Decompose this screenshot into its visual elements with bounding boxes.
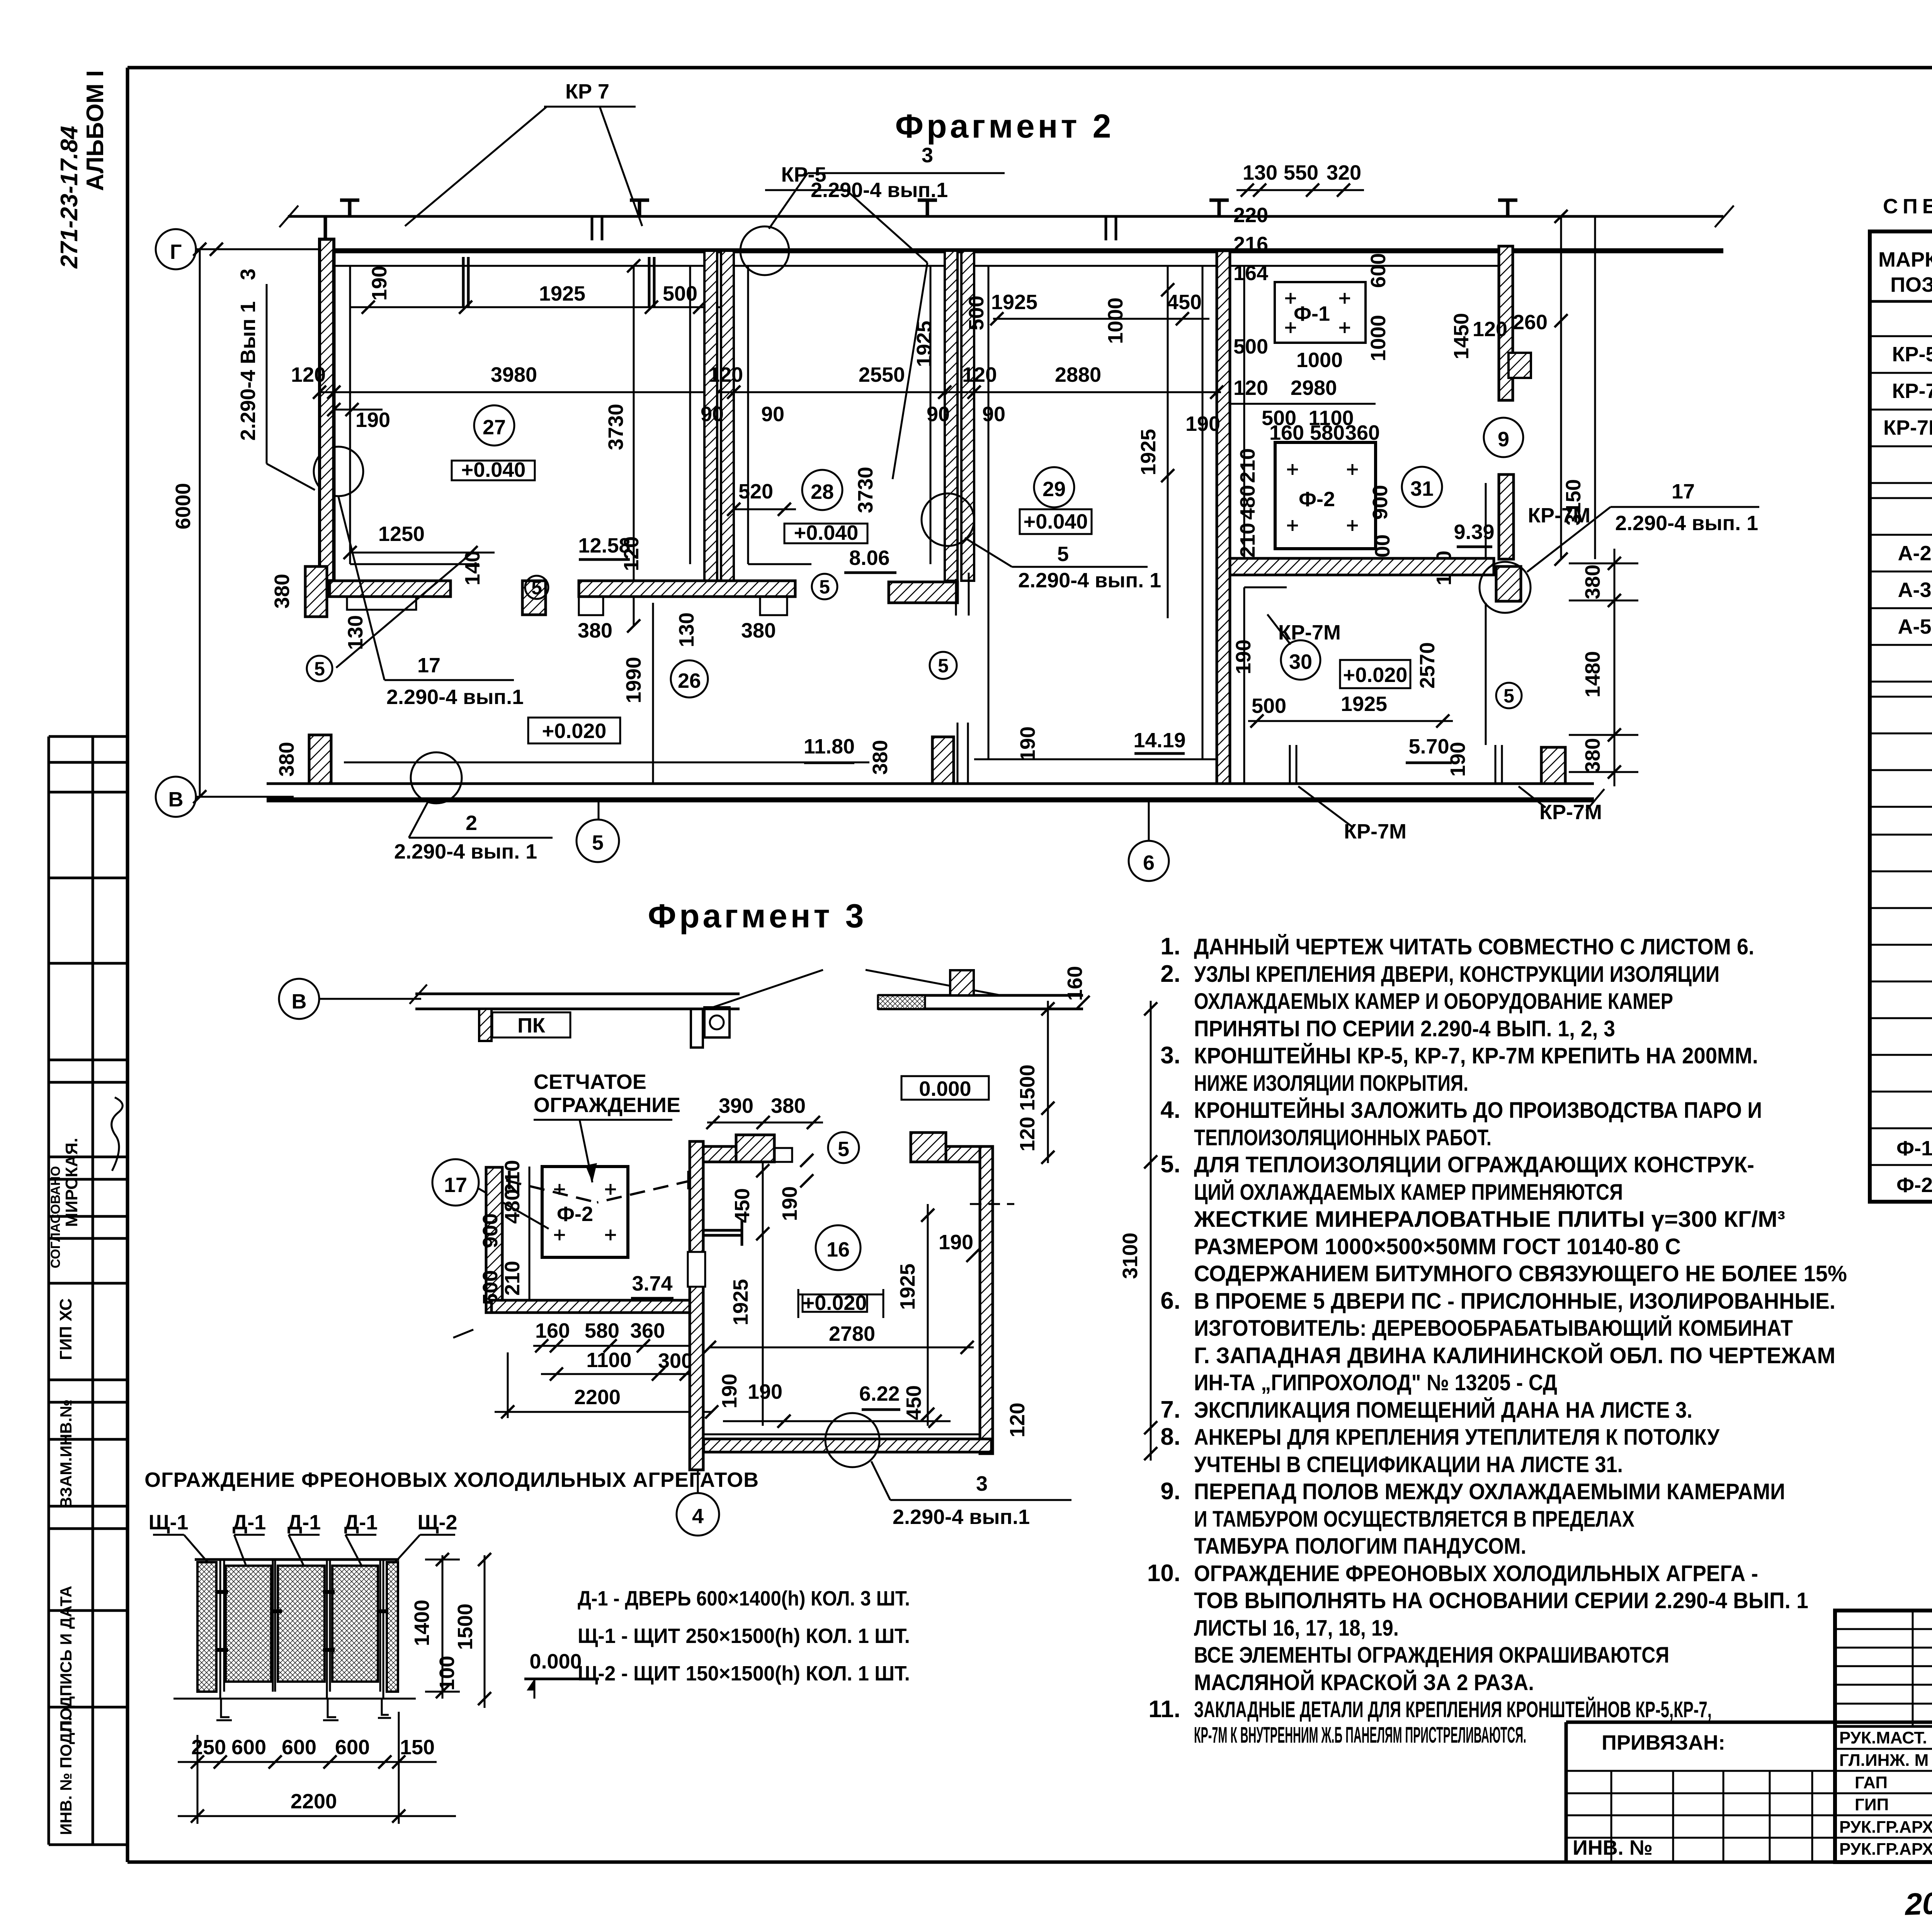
svg-text:390: 390	[719, 1094, 753, 1117]
svg-text:500: 500	[965, 296, 988, 330]
svg-text:120: 120	[962, 363, 997, 386]
svg-text:1925: 1925	[729, 1279, 752, 1325]
svg-text:2.: 2.	[1160, 961, 1180, 987]
svg-text:Ф-2: Ф-2	[1896, 1173, 1932, 1197]
svg-text:ВЗАМ.ИНВ.№: ВЗАМ.ИНВ.№	[57, 1400, 75, 1509]
top wall band	[415, 993, 740, 995]
fence elevation	[145, 1468, 910, 1824]
privyazan box	[1566, 1721, 1932, 1724]
svg-text:ИН-ТА „ГИПРОХОЛОД" № 13205 - С: ИН-ТА „ГИПРОХОЛОД" № 13205 - СД	[1194, 1370, 1557, 1395]
column joint at left wall top	[324, 216, 327, 239]
dim 3730 room 27	[633, 266, 635, 626]
top wall inner thick line	[320, 248, 1723, 253]
svg-text:ДАННЫЙ ЧЕРТЕЖ ЧИТАТЬ СОВМЕСТНО: ДАННЫЙ ЧЕРТЕЖ ЧИТАТЬ СОВМЕСТНО С ЛИСТОМ …	[1194, 934, 1754, 959]
wall 27|28	[704, 251, 717, 581]
svg-text:5: 5	[838, 1138, 849, 1161]
anchor symbol left	[703, 1229, 742, 1232]
top right wall column	[1499, 246, 1513, 400]
axis Г	[156, 229, 196, 269]
svg-text:В: В	[168, 788, 184, 811]
svg-text:11.: 11.	[1148, 1696, 1180, 1723]
svg-text:600: 600	[231, 1736, 266, 1759]
svg-text:250: 250	[191, 1736, 226, 1759]
svg-text:380: 380	[1581, 565, 1604, 599]
bottom wall band	[267, 782, 1594, 785]
svg-text:7.: 7.	[1160, 1396, 1180, 1423]
svg-text:И ТАМБУРОМ ОСУЩЕСТВЛЯЕТСЯ В ПР: И ТАМБУРОМ ОСУЩЕСТВЛЯЕТСЯ В ПРЕДЕЛАХ	[1194, 1507, 1634, 1532]
inner line room29 bottom	[974, 759, 1217, 760]
svg-text:9: 9	[1498, 428, 1509, 451]
top wall right break	[1715, 206, 1734, 227]
svg-text:2780: 2780	[829, 1322, 875, 1345]
upper small grid	[1835, 1611, 1932, 1726]
svg-text:5: 5	[314, 658, 325, 680]
svg-text:РАЗМЕРОМ 1000×500×50ММ ГОСТ 10: РАЗМЕРОМ 1000×500×50ММ ГОСТ 10140-80 С	[1194, 1234, 1681, 1259]
svg-text:А-2: А-2	[1898, 542, 1931, 565]
svg-text:РУК.ГР.АРХ.: РУК.ГР.АРХ.	[1839, 1840, 1932, 1859]
svg-text:1925: 1925	[896, 1264, 919, 1310]
svg-text:А-3: А-3	[1898, 578, 1931, 602]
svg-text:ЦИЙ ОХЛАЖДАЕМЫХ КАМЕР ПРИМЕНЯЮ: ЦИЙ ОХЛАЖДАЕМЫХ КАМЕР ПРИМЕНЯЮТСЯ	[1194, 1180, 1623, 1205]
svg-text:6.22: 6.22	[859, 1382, 900, 1405]
svg-text:216: 216	[1233, 233, 1268, 256]
svg-text:ВСЕ ЭЛЕМЕНТЫ ОГРАЖДЕНИЯ ОКРАШИ: ВСЕ ЭЛЕМЕНТЫ ОГРАЖДЕНИЯ ОКРАШИВАЮТСЯ	[1194, 1643, 1669, 1668]
svg-text:КР-7М: КР-7М	[1344, 820, 1406, 843]
svg-text:164: 164	[1233, 262, 1268, 285]
bottom blocks	[932, 737, 954, 784]
svg-text:СЕТЧАТОЕ: СЕТЧАТОЕ	[534, 1070, 646, 1094]
dim row 190 450 6.22	[723, 1420, 951, 1422]
right dim col 3100	[1150, 1001, 1152, 1461]
svg-text:СПЕЦИФИКАЦИЯ ЭЛЕМЕНТОВ ОХЛАЖДА: СПЕЦИФИКАЦИЯ ЭЛЕМЕНТОВ ОХЛАЖДАЕМЫХ КАМЕР	[1883, 195, 1932, 218]
svg-text:130: 130	[1243, 161, 1277, 184]
svg-text:МАРКА: МАРКА	[1878, 248, 1932, 271]
svg-text:1990: 1990	[622, 657, 645, 703]
svg-text:90: 90	[982, 403, 1005, 426]
svg-text:11.80: 11.80	[804, 735, 855, 758]
svg-text:ИЗГОТОВИТЕЛЬ: ДЕРЕВООБРАБАТЫВА: ИЗГОТОВИТЕЛЬ: ДЕРЕВООБРАБАТЫВАЮЩИЙ КОМБИ…	[1194, 1316, 1793, 1341]
svg-text:2570: 2570	[1416, 642, 1439, 689]
svg-text:600: 600	[1367, 253, 1390, 288]
svg-text:ЗАКЛАДНЫЕ ДЕТАЛИ ДЛЯ КРЕПЛЕНИЯ: ЗАКЛАДНЫЕ ДЕТАЛИ ДЛЯ КРЕПЛЕНИЯ КРОНШТЕЙН…	[1194, 1697, 1712, 1722]
title block	[1566, 1611, 1932, 1864]
room 28	[802, 470, 842, 510]
svg-text:160: 160	[1063, 966, 1087, 1001]
svg-text:27: 27	[483, 416, 506, 439]
svg-text:190: 190	[1016, 726, 1039, 761]
column joint marks on top wall	[340, 200, 1517, 216]
svg-text:160: 160	[535, 1319, 570, 1342]
svg-text:120: 120	[708, 363, 743, 386]
svg-text:КР 7: КР 7	[565, 80, 609, 103]
svg-text:130: 130	[675, 612, 698, 647]
label 3 / 2.290-4 вып.1	[871, 1461, 890, 1500]
svg-text:9.: 9.	[1160, 1478, 1180, 1505]
svg-text:1100: 1100	[586, 1349, 631, 1372]
svg-text:5.: 5.	[1160, 1151, 1180, 1178]
svg-text:29: 29	[1043, 478, 1066, 501]
svg-text:1250: 1250	[378, 522, 425, 546]
right porch	[911, 1133, 946, 1162]
svg-text:ГИП ХС: ГИП ХС	[56, 1298, 75, 1360]
svg-text:ОХЛАЖДАЕМЫХ КАМЕР И ОБОРУДОВАН: ОХЛАЖДАЕМЫХ КАМЕР И ОБОРУДОВАНИЕ КАМЕР	[1194, 989, 1673, 1014]
svg-text:3.: 3.	[1160, 1042, 1180, 1069]
svg-text:380: 380	[275, 742, 298, 777]
room 27 elevation +0.040	[452, 461, 535, 480]
svg-text:Щ-2: Щ-2	[417, 1511, 457, 1534]
svg-text:450: 450	[1167, 291, 1202, 314]
svg-text:3: 3	[976, 1472, 988, 1495]
svg-text:ГИП: ГИП	[1855, 1795, 1889, 1814]
leader to lower wall	[336, 553, 472, 668]
svg-text:380: 380	[741, 619, 776, 642]
svg-text:ПРИНЯТЫ ПО СЕРИИ 2.290-4 ВЫП.: ПРИНЯТЫ ПО СЕРИИ 2.290-4 ВЫП. 1, 2, 3	[1194, 1016, 1615, 1041]
svg-text:КР-7: КР-7	[1892, 379, 1932, 403]
svg-text:900: 900	[1369, 485, 1392, 520]
svg-text:380: 380	[771, 1094, 806, 1117]
svg-text:14.19: 14.19	[1133, 729, 1185, 752]
dim row 120 2550 over 28	[719, 391, 978, 393]
fence frame	[195, 1558, 399, 1561]
svg-text:600: 600	[282, 1736, 316, 1759]
svg-text:26: 26	[678, 669, 701, 692]
svg-text:ПОЗ.: ПОЗ.	[1890, 273, 1932, 296]
svg-text:3: 3	[922, 144, 933, 167]
dim row 190 1925 500	[350, 306, 732, 308]
top wall outer line	[288, 215, 1723, 218]
room 31 inner outline	[1230, 265, 1499, 267]
room16 bottom wall	[704, 1439, 992, 1452]
svg-text:Щ-1: Щ-1	[148, 1511, 188, 1534]
row lines	[1870, 336, 1932, 1165]
ПК box	[492, 1012, 570, 1037]
wall 29|30 central	[1217, 251, 1230, 784]
room 31	[1402, 467, 1442, 507]
svg-text:А-5: А-5	[1898, 615, 1931, 638]
svg-text:2550: 2550	[859, 363, 905, 386]
svg-text:17: 17	[1672, 480, 1695, 503]
svg-text:380: 380	[869, 740, 892, 775]
svg-text:Щ-2 - ЩИТ 150×1500(h) КОЛ.: Щ-2 - ЩИТ 150×1500(h) КОЛ. 1 ШТ.	[578, 1662, 910, 1685]
svg-text:120: 120	[1006, 1403, 1029, 1437]
svg-text:28: 28	[811, 480, 834, 503]
svg-text:2.290-4 вып.1: 2.290-4 вып.1	[893, 1505, 1030, 1529]
posts	[220, 1560, 383, 1699]
left protruding block	[309, 735, 331, 784]
mesh panels	[197, 1562, 216, 1692]
room 16 top wall	[703, 1146, 774, 1162]
svg-text:Ф-1: Ф-1	[1896, 1137, 1932, 1160]
feet	[216, 1699, 391, 1720]
svg-text:ЛИСТЫ 16, 17, 18, 19.: ЛИСТЫ 16, 17, 18, 19.	[1194, 1616, 1399, 1641]
svg-text:500: 500	[1233, 335, 1268, 358]
svg-text:120: 120	[1233, 376, 1268, 400]
svg-text:220: 220	[1233, 204, 1268, 227]
Ф-1 foundation box	[1275, 282, 1366, 343]
svg-text:2.290-4 Вып 1: 2.290-4 Вып 1	[236, 301, 260, 441]
top wall left break	[279, 206, 298, 227]
svg-text:190: 190	[1446, 742, 1469, 777]
dim 1450 3150	[1560, 216, 1562, 559]
right jamb of band	[691, 1009, 703, 1048]
svg-text:+0.020: +0.020	[1343, 663, 1408, 687]
svg-text:380: 380	[578, 619, 612, 642]
svg-text:В ПРОЕМЕ 5 ДВЕРИ ПС - ПРИСЛОНН: В ПРОЕМЕ 5 ДВЕРИ ПС - ПРИСЛОННЫЕ, ИЗОЛИР…	[1194, 1289, 1835, 1314]
svg-text:1925: 1925	[913, 321, 936, 367]
detail circle on top wall	[740, 226, 789, 275]
svg-text:190: 190	[748, 1380, 782, 1403]
svg-text:9.39: 9.39	[1454, 520, 1494, 544]
lower wall under rooms 28	[579, 581, 795, 597]
svg-text:1450: 1450	[1450, 313, 1473, 359]
svg-text:5: 5	[1057, 543, 1069, 566]
svg-text:480: 480	[501, 1189, 524, 1224]
svg-text:2880: 2880	[1055, 363, 1101, 386]
svg-text:МИРСКАЯ.: МИРСКАЯ.	[62, 1138, 81, 1227]
svg-text:260: 260	[1513, 311, 1548, 334]
dim 1250 / 140	[350, 552, 495, 554]
specification table	[1870, 195, 1932, 1202]
svg-text:Д-1 - ДВЕРЬ 600×1400(h) КОЛ.: Д-1 - ДВЕРЬ 600×1400(h) КОЛ. 3 ШТ.	[578, 1587, 910, 1610]
box with circle	[704, 1007, 730, 1037]
+0.020 box	[803, 1294, 867, 1312]
hatched column under band	[479, 1009, 492, 1041]
left wall	[320, 239, 334, 581]
svg-text:ПЕРЕПАД ПОЛОВ МЕЖДУ ОХЛАЖДАЕМЫ: ПЕРЕПАД ПОЛОВ МЕЖДУ ОХЛАЖДАЕМЫМИ КАМЕРАМ…	[1194, 1479, 1785, 1504]
svg-text:1400: 1400	[410, 1600, 434, 1646]
svg-text:КР-7М: КР-7М	[1883, 416, 1932, 439]
svg-text:3980: 3980	[491, 363, 537, 386]
bottom wall inner line	[344, 762, 869, 764]
svg-text:1925: 1925	[991, 291, 1037, 314]
svg-text:Ф-2: Ф-2	[557, 1202, 593, 1226]
svg-text:210: 210	[501, 1261, 524, 1296]
svg-text:190: 190	[355, 408, 390, 432]
svg-text:РУК.МАСТ.: РУК.МАСТ.	[1839, 1728, 1927, 1747]
ground line	[173, 1698, 416, 1700]
svg-text:+0.040: +0.040	[794, 521, 859, 544]
room 27 inner outline	[349, 266, 351, 564]
svg-text:КР-7М: КР-7М	[1528, 504, 1590, 527]
svg-text:20360-01: 20360-01	[1904, 1883, 1932, 1922]
detail circle bottom	[825, 1413, 879, 1467]
svg-text:550: 550	[1284, 161, 1318, 184]
svg-text:2980: 2980	[1291, 376, 1337, 400]
svg-text:500: 500	[663, 282, 697, 305]
svg-text:90: 90	[761, 403, 784, 426]
bottom wall room17	[492, 1300, 690, 1313]
room 29 inner outline	[974, 265, 1217, 267]
svg-text:3.74: 3.74	[632, 1272, 672, 1295]
axis 4	[697, 1470, 699, 1493]
fragment 2 plan	[156, 80, 1759, 881]
right dims 1400 1500 100	[442, 1555, 444, 1699]
svg-text:8.: 8.	[1160, 1423, 1180, 1450]
svg-text:МАСЛЯНОЙ КРАСКОЙ ЗА 2 РАЗА.: МАСЛЯНОЙ КРАСКОЙ ЗА 2 РАЗА.	[1194, 1670, 1534, 1695]
header bottom	[1870, 300, 1932, 303]
svg-text:КР-5: КР-5	[781, 163, 827, 186]
svg-text:360: 360	[630, 1319, 665, 1342]
svg-text:210: 210	[1236, 523, 1259, 558]
axis 6 bottom	[1148, 800, 1150, 841]
svg-text:380: 380	[1581, 738, 1604, 773]
svg-text:120: 120	[1016, 1117, 1039, 1151]
450 dim	[762, 1162, 764, 1426]
svg-text:СОДЕРЖАНИЕМ БИТУМНОГО СВЯЗУЮЩЕ: СОДЕРЖАНИЕМ БИТУМНОГО СВЯЗУЮЩЕГО НЕ БОЛЕ…	[1194, 1261, 1847, 1286]
label 5 / 2.290-4 вып.1	[922, 493, 974, 546]
svg-text:190: 190	[718, 1374, 741, 1408]
svg-text:1925: 1925	[1137, 429, 1160, 475]
detail circle left wall	[314, 447, 363, 496]
svg-text:НИЖЕ ИЗОЛЯЦИИ ПОКРЫТИЯ.: НИЖЕ ИЗОЛЯЦИИ ПОКРЫТИЯ.	[1194, 1071, 1468, 1096]
svg-text:ОГРАЖДЕНИЕ ФРЕОНОВЫХ ХОЛОДИЛЬН: ОГРАЖДЕНИЕ ФРЕОНОВЫХ ХОЛОДИЛЬНЫХ АГРЕГА …	[1194, 1561, 1758, 1586]
svg-text:+0.040: +0.040	[461, 458, 526, 481]
detail circle bottom band	[411, 752, 462, 803]
svg-text:1500: 1500	[454, 1604, 477, 1650]
svg-text:Г. ЗАПАДНАЯ ДВИНА КАЛИНИНСКОЙ: Г. ЗАПАДНАЯ ДВИНА КАЛИНИНСКОЙ ОБЛ. ПО ЧЕ…	[1194, 1343, 1835, 1368]
anchor symbols below band	[463, 257, 654, 307]
svg-text:Д-1: Д-1	[233, 1511, 266, 1534]
9 circle	[1484, 418, 1523, 457]
svg-text:320: 320	[1327, 161, 1361, 184]
svg-text:Фрагмент 3: Фрагмент 3	[648, 898, 867, 935]
svg-text:5.70: 5.70	[1408, 735, 1449, 758]
svg-text:1480: 1480	[1581, 651, 1604, 697]
svg-text:ТЕПЛОИЗОЛЯЦИОННЫХ РАБОТ.: ТЕПЛОИЗОЛЯЦИОННЫХ РАБОТ.	[1194, 1125, 1492, 1150]
KP7 bracket marks on top band	[592, 216, 1116, 240]
svg-text:16: 16	[827, 1238, 850, 1261]
table outer border	[1870, 231, 1932, 1202]
svg-text:3730: 3730	[854, 467, 877, 513]
svg-text:+0.020: +0.020	[542, 719, 607, 743]
right edge dims 380 1480 380	[1614, 549, 1616, 786]
svg-text:500: 500	[1252, 694, 1286, 718]
fragment 3 plan	[279, 898, 1157, 1536]
door jamb block left	[305, 566, 327, 617]
svg-text:1500: 1500	[1016, 1065, 1039, 1111]
svg-text:КР-7М К ВНУТРЕННИМ Ж.Б ПАНЕЛЯМ: КР-7М К ВНУТРЕННИМ Ж.Б ПАНЕЛЯМ ПРИСТРЕЛИ…	[1194, 1723, 1526, 1748]
svg-text:+0.040: +0.040	[1024, 510, 1088, 533]
svg-text:ИНВ. № ПОДЛ.: ИНВ. № ПОДЛ.	[57, 1717, 75, 1835]
svg-text:3730: 3730	[604, 404, 628, 450]
svg-text:ДЛЯ ТЕПЛОИЗОЛЯЦИИ ОГРАЖДАЮЩИХ: ДЛЯ ТЕПЛОИЗОЛЯЦИИ ОГРАЖДАЮЩИХ КОНСТРУК-	[1194, 1152, 1754, 1177]
room 17 circle	[432, 1159, 479, 1206]
room 30	[1281, 640, 1320, 680]
svg-text:450: 450	[731, 1188, 754, 1223]
svg-text:450: 450	[902, 1385, 925, 1420]
svg-text:ИНВ. №: ИНВ. №	[1573, 1836, 1653, 1859]
right wall room16	[980, 1146, 993, 1454]
svg-text:2200: 2200	[291, 1790, 337, 1813]
svg-text:210: 210	[1236, 448, 1259, 483]
wall 28|29	[945, 251, 957, 581]
svg-text:1925: 1925	[1341, 692, 1387, 716]
main stamp frame	[1835, 1611, 1932, 1862]
svg-text:120: 120	[291, 363, 326, 386]
room 16	[816, 1225, 861, 1270]
svg-text:580: 580	[585, 1319, 619, 1342]
svg-text:31: 31	[1410, 477, 1434, 500]
svg-text:1000: 1000	[1296, 349, 1343, 372]
svg-text:2.290-4 вып. 1: 2.290-4 вып. 1	[1018, 569, 1161, 592]
svg-text:ЖЕСТКИЕ МИНЕРАЛОВАТНЫЕ ПЛИТЫ γ: ЖЕСТКИЕ МИНЕРАЛОВАТНЫЕ ПЛИТЫ γ=300 КГ/М³	[1194, 1207, 1785, 1232]
dim 190 below	[327, 403, 340, 416]
header texts	[1878, 239, 1932, 300]
dim row 120 3980	[321, 391, 734, 393]
svg-text:АНКЕРЫ ДЛЯ КРЕПЛЕНИЯ УТЕПЛИТЕЛ: АНКЕРЫ ДЛЯ КРЕПЛЕНИЯ УТЕПЛИТЕЛЯ К ПОТОЛК…	[1194, 1425, 1720, 1450]
svg-text:Ф-2: Ф-2	[1299, 488, 1335, 511]
room 26	[671, 660, 708, 697]
svg-text:В: В	[292, 990, 307, 1013]
svg-text:Д-1: Д-1	[344, 1511, 378, 1534]
svg-text:380: 380	[270, 574, 294, 609]
svg-text:271-23-17.84: 271-23-17.84	[56, 126, 83, 269]
svg-text:480: 480	[1236, 485, 1259, 520]
svg-text:ТАМБУРА ПОЛОГИМ ПАНДУСОМ.: ТАМБУРА ПОЛОГИМ ПАНДУСОМ.	[1194, 1534, 1526, 1559]
svg-text:2: 2	[466, 811, 477, 835]
detail circle 5	[828, 1132, 859, 1163]
svg-text:Фрагмент 2: Фрагмент 2	[895, 108, 1114, 145]
svg-text:6000: 6000	[172, 483, 195, 529]
wall right of 31	[1499, 474, 1514, 559]
svg-text:17: 17	[417, 654, 440, 677]
svg-text:6: 6	[1143, 851, 1155, 874]
svg-text:190: 190	[1232, 639, 1255, 674]
svg-text:600: 600	[335, 1736, 370, 1759]
signature rows	[1835, 1726, 1932, 1862]
svg-text:190: 190	[939, 1231, 973, 1254]
svg-text:8.06: 8.06	[849, 546, 889, 570]
svg-text:1000: 1000	[1104, 298, 1127, 344]
notes list	[1147, 933, 1847, 1748]
svg-text:ПК: ПК	[517, 1014, 546, 1037]
svg-text:190: 190	[1185, 412, 1220, 435]
svg-text:ГАП: ГАП	[1855, 1773, 1888, 1792]
svg-text:2200: 2200	[574, 1386, 621, 1409]
wall below room 31	[1230, 558, 1494, 575]
svg-text:УЧТЕНЫ В СПЕЦИФИКАЦИИ НА ЛИСТЕ: УЧТЕНЫ В СПЕЦИФИКАЦИИ НА ЛИСТЕ 31.	[1194, 1452, 1623, 1477]
svg-text:2.290-4 вып.1: 2.290-4 вып.1	[386, 685, 524, 709]
svg-text:АЛЬБОМ I: АЛЬБОМ I	[82, 70, 109, 191]
table body	[1883, 308, 1932, 1197]
svg-text:17: 17	[444, 1173, 467, 1197]
axis В	[279, 979, 319, 1019]
svg-text:+0.020: +0.020	[803, 1291, 867, 1315]
svg-text:ПОДПИСЬ И ДАТА: ПОДПИСЬ И ДАТА	[57, 1586, 75, 1732]
svg-text:Щ-1 - ЩИТ 250×1500(h) КОЛ.: Щ-1 - ЩИТ 250×1500(h) КОЛ. 1 ШТ.	[578, 1624, 910, 1648]
svg-text:2.290-4 вып. 1: 2.290-4 вып. 1	[1615, 512, 1758, 535]
upper right wall piece	[878, 994, 1083, 997]
detail circles small 5	[307, 656, 332, 681]
svg-text:10.: 10.	[1147, 1560, 1180, 1587]
axis В	[156, 777, 196, 817]
Ф-2 box	[542, 1167, 628, 1257]
svg-text:Д-1: Д-1	[287, 1511, 321, 1534]
svg-text:5: 5	[938, 655, 949, 677]
svg-text:3: 3	[236, 269, 260, 280]
svg-text:4: 4	[692, 1505, 704, 1528]
svg-text:1925: 1925	[539, 282, 585, 305]
svg-text:5: 5	[819, 576, 830, 598]
porch top-left	[736, 1135, 774, 1162]
svg-text:6.: 6.	[1160, 1287, 1180, 1314]
Ф-2 foundation box room31	[1275, 442, 1376, 549]
0.000 box	[901, 1076, 989, 1100]
svg-text:120: 120	[620, 536, 643, 571]
door jambs room30	[1290, 745, 1502, 784]
dim 6000	[199, 249, 201, 797]
room 30 inner outline	[1243, 587, 1245, 784]
